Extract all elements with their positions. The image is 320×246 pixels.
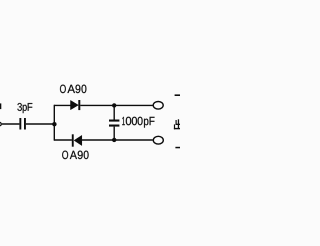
diode D2 OA90 (bottom, pointing left)	[72, 134, 82, 146]
capacitor C1 plates (3pF)	[19, 118, 26, 130]
wire: top branch left segment	[54, 104, 71, 106]
wire: bottom branch left segment	[54, 139, 72, 141]
node: input junction dot	[52, 122, 56, 126]
wire: capacitor C1 to input junction	[26, 123, 55, 125]
label: 出 (output text, clipped at right edge)	[174, 119, 180, 129]
wire: bottom branch right segment	[82, 139, 153, 141]
node: top output junction dot	[112, 103, 116, 107]
mark: clipped stroke (bottom right)	[175, 147, 180, 149]
output terminal (top)	[153, 102, 163, 110]
wire: vertical branch line	[53, 105, 55, 141]
mark: clipped stroke (top right)	[175, 94, 180, 96]
output terminal (bottom)	[153, 136, 163, 144]
wire: top branch right segment	[80, 104, 153, 106]
label: 1000pF	[122, 117, 154, 128]
node: bottom output junction dot	[112, 138, 116, 142]
diode D1 OA90 (top, pointing right)	[71, 100, 81, 110]
label: OA90 (bottom)	[62, 151, 88, 160]
wire: capacitor C2 bottom lead	[113, 127, 115, 141]
label: 3pF	[17, 103, 32, 113]
capacitor C2 plates (1000pF)	[109, 120, 119, 127]
wire: capacitor C2 top lead	[113, 105, 115, 119]
mark: clipped text (left edge)	[0, 103, 1, 109]
input terminal (left, clipped circle)	[0, 122, 1, 125]
wire: input terminal to capacitor C1	[2, 123, 20, 125]
label: OA90 (top)	[60, 85, 86, 94]
